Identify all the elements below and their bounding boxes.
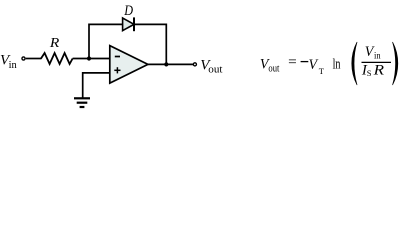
node junction at inverting input [87,56,91,60]
left big paren [352,42,357,85]
wire input to resistor [26,58,42,60]
svg-text:V: V [309,57,319,73]
svg-text:S: S [367,68,372,78]
wire non-inverting input to ground [83,73,110,98]
svg-text:D: D [123,3,133,19]
svg-text:out: out [268,63,279,74]
ground [74,98,90,107]
svg-text:in: in [374,50,381,60]
svg-text:T: T [319,66,325,76]
svg-text:R: R [49,36,60,51]
node junction at output [164,62,168,66]
wire feedback loop: up, across top, down to output [89,24,166,64]
op-amp inverting pin mark [115,56,120,58]
output terminal [193,63,196,66]
svg-text:in: in [9,60,18,71]
svg-text:=: = [288,55,297,71]
svg-text:R: R [372,63,384,79]
svg-text:ln: ln [333,57,341,73]
op-amp U1 [110,46,148,84]
diode D [123,17,134,31]
fraction bar [362,61,392,63]
resistor R [41,53,73,64]
wire op-amp output to terminal [148,63,193,65]
right big paren [393,42,398,85]
input terminal [22,57,25,60]
equation Vout = -VT ln(Vin/(IS R)) [260,42,398,85]
node Vin label [0,53,18,71]
node Vout label [200,58,222,76]
op-amp non-inverting pin mark [114,67,120,73]
svg-text:out: out [208,64,222,75]
wire resistor to op-amp inverting input [73,58,110,60]
